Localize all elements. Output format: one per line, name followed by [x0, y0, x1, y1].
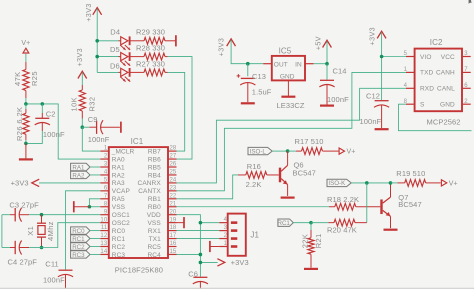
svg-text:22: 22 — [170, 193, 177, 199]
svg-text:RC2: RC2 — [112, 244, 126, 251]
wire R28 to RB6 — [168, 57, 193, 159]
ground below C14 — [320, 104, 334, 106]
svg-text:RC2: RC2 — [72, 244, 85, 251]
power +3V3 supply arrow (RA3) — [11, 178, 40, 187]
power +3V3 supply arrow (LED rail) — [84, 3, 102, 22]
svg-text:19: 19 — [170, 217, 177, 223]
capacitor C9 100nF — [82, 115, 120, 144]
capacitor C6 100nF — [188, 269, 208, 288]
svg-text:C6: C6 — [188, 269, 198, 278]
resistor R32 10K — [69, 72, 96, 127]
svg-text:D4: D4 — [110, 28, 120, 37]
terminal bar end of R29 — [175, 35, 177, 46]
svg-text:RC3: RC3 — [72, 252, 85, 259]
junction R21 top — [309, 221, 313, 225]
ground below R21 — [304, 268, 318, 270]
svg-text:RC1: RC1 — [112, 236, 126, 243]
svg-text:V+: V+ — [21, 40, 30, 47]
svg-text:VCAP: VCAP — [112, 188, 130, 195]
svg-text:IC2: IC2 — [430, 38, 443, 47]
svg-text:17: 17 — [170, 233, 177, 239]
svg-text:RC1: RC1 — [72, 236, 85, 243]
svg-text:18: 18 — [170, 225, 177, 231]
svg-text:20: 20 — [170, 209, 177, 215]
svg-text:3: 3 — [224, 225, 228, 231]
svg-text:IN: IN — [295, 61, 302, 68]
LED D6 — [110, 62, 144, 82]
svg-text:VSS: VSS — [147, 220, 161, 227]
junction Q7 collector node — [389, 181, 393, 185]
svg-text:VCC: VCC — [441, 54, 455, 61]
svg-text:OUT: OUT — [274, 61, 288, 68]
wire OSC2 route — [42, 223, 101, 248]
svg-text:2: 2 — [104, 154, 108, 160]
IC IC2 MCP2562 box — [404, 38, 471, 126]
svg-text:RA2: RA2 — [112, 172, 125, 179]
svg-text:OSC2: OSC2 — [112, 220, 130, 227]
svg-text:6: 6 — [464, 83, 468, 89]
svg-text:100nF: 100nF — [360, 117, 382, 126]
crystal X1 4Mhz — [26, 215, 55, 248]
wire +3V3 to VIO and C12 — [382, 32, 406, 100]
resistor R25 47K — [13, 62, 39, 98]
resistor R20 47K — [311, 219, 367, 234]
power +5V supply arrow — [313, 36, 331, 50]
svg-text:15: 15 — [170, 249, 177, 255]
svg-text:100nF: 100nF — [43, 130, 65, 139]
wire R27 to RB7 — [168, 72, 185, 151]
wire R25 to RA0 node — [26, 98, 100, 159]
net flag RC2 — [71, 243, 101, 251]
svg-text:7: 7 — [464, 67, 468, 73]
svg-text:9: 9 — [104, 209, 108, 215]
junction +3V3 branch — [199, 261, 203, 265]
capacitor C11 100nF — [43, 259, 73, 288]
svg-text:22K: 22K — [300, 234, 309, 249]
wire RA3 to +3V3 — [39, 182, 100, 184]
junction D5 anode — [95, 55, 99, 59]
svg-text:RA3: RA3 — [112, 180, 125, 187]
svg-text:PIC18F25K80: PIC18F25K80 — [115, 266, 163, 275]
svg-text:VIO: VIO — [420, 54, 432, 61]
resistor R21 22K — [300, 223, 323, 268]
svg-text:C4 27pF: C4 27pF — [8, 257, 38, 266]
svg-text:C9: C9 — [88, 115, 98, 124]
junction C13 node — [246, 62, 250, 66]
junction J1 pin4 row — [199, 221, 203, 225]
svg-text:RC0: RC0 — [112, 228, 126, 235]
svg-text:2: 2 — [224, 233, 228, 239]
power V+ supply (divider) — [21, 40, 30, 53]
svg-text:8: 8 — [104, 201, 108, 207]
svg-text:4: 4 — [104, 170, 108, 176]
wire +3V3 rail to LED anodes — [97, 9, 119, 73]
svg-text:8: 8 — [404, 99, 408, 105]
svg-text:2: 2 — [464, 99, 468, 105]
svg-text:RA0: RA0 — [112, 156, 125, 163]
capacitor C4 27pF — [2, 241, 42, 267]
svg-text:5: 5 — [104, 178, 108, 184]
svg-text:R21: R21 — [314, 233, 323, 248]
svg-text:RB7: RB7 — [148, 148, 161, 155]
power V+ arrow (R19) — [441, 180, 457, 188]
svg-text:R16: R16 — [247, 162, 261, 171]
resistor R29 330 — [136, 28, 176, 45]
junction divider bottom — [24, 142, 28, 146]
svg-text:CANH: CANH — [436, 70, 455, 77]
svg-text:ISO-K: ISO-K — [328, 180, 346, 187]
junction C2 top — [41, 102, 45, 106]
svg-text:27: 27 — [170, 154, 177, 160]
svg-text:TXD: TXD — [420, 70, 434, 77]
svg-text:1: 1 — [104, 146, 108, 152]
power V+ arrow (R17) — [339, 148, 355, 156]
svg-text:S: S — [420, 102, 425, 109]
svg-text:TX1: TX1 — [149, 236, 162, 243]
svg-text:7: 7 — [104, 193, 108, 199]
junction RA5/VSS — [88, 205, 92, 209]
ground below IC5 GND — [281, 96, 295, 98]
svg-text:V+: V+ — [347, 149, 356, 156]
svg-text:21: 21 — [170, 201, 177, 207]
ground below C13 — [241, 102, 255, 104]
svg-text:RX1: RX1 — [148, 228, 161, 235]
capacitor C13 1.5uF — [237, 64, 272, 102]
svg-text:BC547: BC547 — [293, 168, 316, 177]
svg-text:RB1: RB1 — [148, 196, 161, 203]
transistor Q6 BC547 — [267, 151, 316, 198]
LED D4 — [110, 28, 144, 50]
svg-text:23: 23 — [170, 185, 177, 191]
wire C3/C4 common — [1, 215, 3, 248]
svg-text:X1: X1 — [26, 226, 35, 236]
svg-text:D5: D5 — [110, 45, 120, 54]
svg-text:+3V3: +3V3 — [11, 178, 29, 187]
svg-text:R19 510: R19 510 — [396, 169, 425, 178]
bottom page border line — [0, 287, 474, 289]
svg-text:47K: 47K — [13, 71, 22, 86]
svg-text:RA5: RA5 — [112, 196, 125, 203]
svg-text:IC1: IC1 — [131, 137, 144, 146]
svg-text:10K: 10K — [69, 97, 78, 112]
svg-text:_MCLR: _MCLR — [111, 148, 135, 155]
svg-text:3: 3 — [104, 162, 108, 168]
svg-text:R17 510: R17 510 — [295, 137, 324, 146]
svg-text:C3 27pF: C3 27pF — [9, 201, 39, 210]
svg-text:+3V3: +3V3 — [217, 38, 226, 57]
junction RC4 row — [199, 253, 203, 257]
svg-text:LE33CZ: LE33CZ — [277, 101, 305, 110]
svg-text:6: 6 — [104, 185, 108, 191]
svg-text:VDD: VDD — [147, 212, 161, 219]
wire IC5 OUT to +3V3 — [231, 40, 263, 64]
svg-text:16: 16 — [170, 241, 177, 247]
svg-text:OSC1: OSC1 — [112, 212, 130, 219]
svg-text:RC3: RC3 — [112, 252, 126, 259]
svg-text:100nF: 100nF — [327, 95, 349, 104]
svg-text:CANRX: CANRX — [138, 180, 162, 187]
svg-text:C14: C14 — [333, 67, 347, 76]
svg-text:C11: C11 — [45, 259, 59, 268]
svg-text:24: 24 — [170, 178, 177, 184]
LED D5 — [110, 45, 144, 66]
terminal bar VSS left — [74, 201, 90, 212]
svg-text:14: 14 — [100, 249, 107, 255]
svg-text:2.2K: 2.2K — [246, 180, 262, 189]
svg-text:GND: GND — [280, 74, 295, 81]
wire IC5 IN to +5V — [314, 41, 328, 63]
svg-text:25: 25 — [170, 170, 177, 176]
svg-text:100nF: 100nF — [43, 276, 65, 285]
wire RB0 to R18 — [177, 206, 330, 208]
svg-text:+3V3: +3V3 — [75, 48, 84, 67]
svg-text:10: 10 — [100, 217, 107, 223]
svg-text:R25: R25 — [30, 71, 39, 86]
wire RXD to CANRX — [177, 88, 407, 183]
svg-text:5: 5 — [404, 51, 408, 57]
svg-text:R28 330: R28 330 — [136, 43, 165, 52]
capacitor C14 100nF — [319, 64, 349, 105]
svg-text:+3V3: +3V3 — [367, 27, 376, 46]
wire S pin route — [399, 104, 472, 131]
svg-text:1.5uF: 1.5uF — [252, 87, 272, 96]
svg-text:RA1: RA1 — [112, 164, 125, 171]
svg-text:1: 1 — [404, 67, 408, 73]
svg-text:26: 26 — [170, 162, 177, 168]
svg-text:MCP2562: MCP2562 — [427, 117, 461, 126]
svg-text:+5V: +5V — [313, 36, 322, 50]
svg-text:C12: C12 — [366, 92, 380, 101]
svg-text:GND: GND — [440, 102, 455, 109]
svg-text:VSS: VSS — [112, 204, 126, 211]
capacitor C3 27pF — [2, 201, 39, 222]
wire RB1 to R16 — [177, 175, 239, 199]
ground below R26 — [19, 143, 33, 159]
svg-text:R29 330: R29 330 — [136, 28, 165, 37]
svg-text:100nF: 100nF — [88, 135, 110, 144]
svg-text:R26 6.2K: R26 6.2K — [15, 107, 24, 141]
svg-text:CANTX: CANTX — [138, 188, 161, 195]
svg-text:V+: V+ — [449, 181, 458, 188]
resistor R16 2.2K — [238, 162, 267, 189]
svg-text:R20 47K: R20 47K — [327, 226, 357, 235]
power +3V3 supply arrow (MCLR pullup) — [75, 48, 87, 79]
svg-text:13: 13 — [100, 241, 107, 247]
wire ISO-K down to R20 — [366, 183, 368, 223]
terminal bar J1 pin1 — [210, 241, 219, 252]
terminal bar VSS right — [177, 217, 185, 228]
wire RX1 to J1 pin3 — [177, 230, 220, 232]
wire RA5 join VSS — [89, 199, 100, 207]
svg-text:J1: J1 — [250, 230, 259, 239]
svg-text:RC5: RC5 — [147, 244, 161, 251]
ground below C12 — [375, 128, 389, 130]
net flag ISO-L — [248, 147, 272, 155]
transistor Q7 BC547 — [380, 183, 421, 230]
svg-text:IC5: IC5 — [279, 47, 292, 56]
junction X1 top — [40, 213, 44, 217]
svg-text:R18 2.2K: R18 2.2K — [327, 195, 359, 204]
net flag RC0 — [71, 227, 101, 235]
junction X1 bottom — [40, 246, 44, 250]
svg-text:RB0: RB0 — [148, 204, 161, 211]
svg-text:RC0: RC0 — [72, 228, 85, 235]
wire ISO-L to node — [272, 150, 287, 152]
junction Q6 collector node — [286, 149, 290, 153]
IC IC1 PIC18F25K80 box — [100, 137, 177, 275]
svg-text:12: 12 — [100, 233, 107, 239]
svg-text:RA2: RA2 — [72, 172, 85, 179]
junction MCLR node — [81, 125, 85, 129]
svg-text:1: 1 — [224, 241, 228, 247]
svg-text:RXD: RXD — [420, 86, 434, 93]
capacitor C12 100nF — [360, 92, 390, 129]
net flag RC3 — [71, 251, 101, 259]
svg-text:RC1: RC1 — [278, 220, 291, 227]
svg-text:RA1: RA1 — [72, 164, 85, 171]
svg-text:CANL: CANL — [437, 86, 455, 93]
svg-text:BC547: BC547 — [398, 200, 421, 209]
resistor R19 510 — [391, 169, 441, 186]
junction C14 node — [325, 62, 329, 66]
capacitor C2 100nF — [26, 104, 65, 143]
net flag RA1 — [71, 163, 101, 171]
svg-text:D6: D6 — [110, 62, 120, 71]
svg-text:4Mhz: 4Mhz — [46, 221, 55, 241]
terminal bar end of C9 — [120, 122, 122, 133]
wire TXD to CANTX — [177, 72, 407, 190]
svg-text:RC4: RC4 — [147, 252, 161, 259]
wire V+ to R25 — [25, 54, 27, 62]
junction VIO node — [380, 55, 384, 59]
IC IC5 LE33CZ box — [263, 47, 313, 110]
power +3V3 supply arrow (IC2) — [367, 27, 386, 46]
net flag RC1 — [71, 235, 101, 243]
svg-text:+3V3: +3V3 — [231, 258, 249, 267]
svg-text:3: 3 — [464, 51, 468, 57]
wire OSC1 row — [29, 214, 100, 216]
connector J1 — [219, 214, 259, 256]
resistor R27 330 — [136, 59, 168, 75]
net flag ISO-K — [327, 179, 351, 187]
svg-text:28: 28 — [170, 146, 177, 152]
junction divider node — [24, 102, 28, 106]
svg-text:RB5: RB5 — [148, 164, 161, 171]
wire MCLR node to pin 1 — [82, 127, 100, 151]
svg-text:RB6: RB6 — [148, 156, 161, 163]
svg-text:R32: R32 — [87, 97, 96, 112]
cursor artifact top right — [469, 0, 472, 4]
junction D4 anode — [95, 39, 99, 43]
power +3V3 arrow (J1 rail) — [217, 258, 248, 267]
wire ISO-K node — [351, 182, 390, 184]
wire VDD +3V3 rail to J1/C6 — [177, 215, 220, 277]
svg-text:C13: C13 — [252, 72, 266, 81]
net flag RC1 (to R20) — [278, 219, 311, 227]
resistor R28 330 — [136, 43, 168, 60]
svg-text:11: 11 — [101, 225, 108, 231]
wire TX1 to J1 pin2 — [177, 238, 220, 240]
resistor R17 510 — [288, 137, 339, 154]
svg-text:C2: C2 — [46, 110, 56, 119]
power +3V3 supply arrow (IC5 out) — [217, 38, 236, 57]
resistor R26 6.2K — [15, 104, 29, 143]
svg-text:ISO-L: ISO-L — [250, 148, 267, 155]
svg-text:RB4: RB4 — [148, 172, 161, 179]
svg-text:4: 4 — [404, 83, 408, 89]
svg-text:4: 4 — [224, 217, 228, 223]
junction ISO-K — [365, 181, 369, 185]
svg-text:R27 330: R27 330 — [136, 59, 165, 68]
net flag RA2 — [71, 171, 101, 179]
wire VCAP to C11 — [66, 191, 101, 270]
resistor R18 2.2K — [327, 195, 380, 210]
svg-text:+3V3: +3V3 — [84, 3, 93, 22]
